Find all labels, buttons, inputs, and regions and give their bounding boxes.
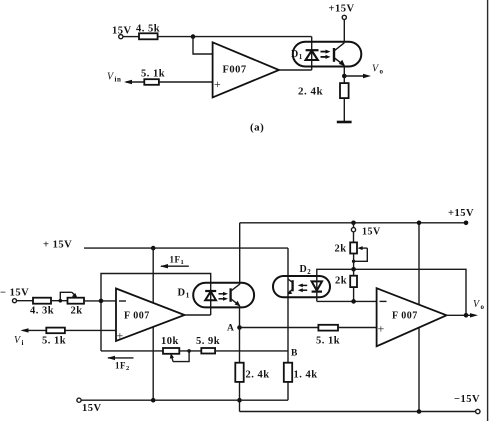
terminal 15V lower-left — [77, 398, 102, 414]
wire terminal to R4.5k — [123, 36, 139, 38]
svg-text:+: + — [117, 329, 124, 343]
junction node (a) inverting branch — [191, 34, 196, 39]
svg-text:−15V: −15V — [454, 394, 480, 405]
svg-text:1. 4k: 1. 4k — [294, 370, 318, 381]
resistor 5.1k input — [42, 328, 66, 347]
wire op-amp output to LED anode — [279, 69, 312, 71]
wire 2.4k down to lower rail corner — [239, 382, 241, 412]
svg-text:5. 1k: 5. 1k — [316, 336, 340, 347]
wire D2 LED anode up and right (feedback line) — [317, 269, 466, 315]
optocoupler D1 body — [193, 283, 254, 308]
svg-text:in: in — [115, 76, 122, 84]
svg-text:B: B — [291, 349, 298, 359]
wire top rail down to D1 collector — [239, 223, 241, 285]
wire R4.5k to LED cathode node — [158, 36, 312, 38]
phototransistor D1 — [231, 284, 241, 306]
node inverting input junction — [99, 299, 104, 304]
svg-text:2. 4k: 2. 4k — [246, 370, 270, 381]
svg-text:i: i — [22, 339, 24, 347]
output Vo arrow (b) — [470, 299, 485, 318]
terminal -15V input — [0, 288, 33, 303]
resistor 2k (lower) — [335, 269, 357, 303]
svg-text:F 007: F 007 — [124, 311, 150, 322]
feedback wire op-amp1 to D1 LED — [101, 274, 211, 352]
wire D2 LED cathode down and right to op-amp2 - input — [317, 300, 377, 302]
light arrows D2 (pointing left) — [298, 284, 307, 293]
output node (a) — [342, 74, 347, 79]
wire node A to op-amp2 + input — [240, 327, 319, 329]
wire 5.9k to node B — [215, 350, 288, 352]
svg-text:5. 9k: 5. 9k — [196, 336, 220, 347]
resistor 4.5k (a) — [136, 24, 160, 40]
svg-text:F 007: F 007 — [392, 311, 418, 322]
wire 5.1k to op-amp1 + input — [65, 329, 116, 331]
node op-amp1 V- on rail — [151, 398, 156, 403]
lower bottom rail to -15V — [240, 394, 481, 414]
wire left rail down to D2 collector — [287, 248, 289, 363]
svg-text:+: + — [378, 322, 385, 336]
op-amp1 supply line (hidden behind triangle) — [152, 248, 154, 400]
svg-text:o: o — [380, 68, 384, 76]
LED D1: bar + triangle — [205, 291, 216, 300]
resistor 5.1k (b right) — [316, 325, 340, 347]
light arrows D1 — [219, 292, 229, 301]
svg-text:2k: 2k — [335, 244, 347, 255]
optocoupler body (a) — [293, 42, 362, 67]
svg-text:2k: 2k — [335, 276, 347, 287]
terminal 15V input (a) — [112, 26, 132, 39]
svg-text:4. 5k: 4. 5k — [136, 24, 160, 35]
node op-amp2 V- on lower rail — [417, 409, 422, 414]
wire feedback node to 10k — [101, 350, 163, 352]
svg-text:o: o — [481, 303, 485, 311]
resistor 2.4k (b) — [235, 363, 269, 382]
resistor 1.4k — [284, 363, 318, 382]
resistor 5.9k — [196, 336, 220, 354]
svg-text:4. 3k: 4. 3k — [30, 306, 54, 317]
node 2.4k on upper bottom rail — [237, 398, 242, 403]
wire 5.1k to op-amp2 — [338, 327, 377, 329]
svg-text:+ 15V: + 15V — [43, 240, 72, 251]
wire 5.1k to op-amp + input — [159, 81, 213, 83]
wire node A down to 2.4k — [239, 328, 241, 363]
LED D2: triangle + bar (anode top) — [312, 281, 322, 291]
label IF2 current arrow — [107, 356, 134, 372]
svg-text:5. 1k: 5. 1k — [141, 69, 165, 80]
potentiometer 10k — [161, 336, 191, 362]
op-amp U1 F007 (a) — [213, 42, 279, 97]
svg-text:− 15V: − 15V — [0, 288, 29, 299]
wire 10k to 5.9k — [179, 350, 201, 352]
output Vo arrow (a) — [344, 64, 383, 79]
+15V left rail — [43, 240, 288, 251]
potentiometer 2k — [59, 292, 85, 316]
+15V terminal (a) — [329, 4, 355, 43]
potentiometer 2k (upper) — [335, 242, 368, 263]
node feedback on output — [464, 313, 469, 318]
output wire op-amp2 — [447, 314, 474, 316]
upper bottom rail — [81, 399, 288, 401]
svg-text:F007: F007 — [223, 65, 247, 76]
wire 2.4k to ground — [343, 98, 345, 122]
wire pot to op-amp1 inverting input — [84, 300, 116, 302]
wire 1.4k down to upper bottom rail — [287, 382, 289, 400]
terminal 15V (pot supply) — [351, 221, 381, 243]
svg-text:A: A — [227, 324, 234, 334]
optocoupler D2 body — [273, 276, 330, 297]
resistor 5.1k (a) — [141, 69, 165, 85]
phototransistor (a) — [334, 43, 345, 66]
svg-text:2. 4k: 2. 4k — [298, 86, 324, 98]
wire 4.3k to 2k pot — [51, 300, 68, 302]
wire pot down to feedback line — [353, 254, 355, 270]
input Vi arrow — [14, 328, 46, 347]
svg-text:2k: 2k — [71, 306, 83, 317]
LED feed verticals (a) — [311, 37, 313, 70]
wire D1 emitter down to node A — [239, 306, 241, 328]
op-amp2 F007 — [377, 288, 447, 346]
node pot/2k junction on feedback line — [351, 267, 356, 272]
op-amp1 F007 — [116, 289, 185, 343]
node: op-amp1 V+ junction — [151, 246, 156, 251]
svg-text:10k: 10k — [161, 336, 179, 347]
op-amp2 supply line (hidden behind triangle) — [418, 223, 420, 412]
emitter wire down (a) — [343, 66, 345, 84]
ground (a) — [337, 121, 352, 124]
resistor 2.4k (a) — [298, 83, 349, 98]
resistor 4.3k — [30, 298, 54, 317]
svg-text:(a): (a) — [250, 122, 264, 134]
label IF1 current arrow — [160, 255, 189, 269]
scan edge line right — [487, 0, 489, 421]
LED D1 (a): cathode bar + triangle — [306, 50, 319, 60]
+15V top rail — [240, 208, 474, 225]
wire branch to inverting input — [193, 37, 213, 54]
wire op-amp1 output — [185, 314, 211, 316]
svg-text:5. 1k: 5. 1k — [42, 336, 66, 347]
svg-text:+15V: +15V — [448, 208, 474, 219]
svg-text:+: + — [214, 77, 221, 91]
svg-text:+15V: +15V — [329, 4, 355, 15]
phototransistor D2 (mirrored) — [287, 279, 292, 295]
svg-text:15V: 15V — [362, 227, 381, 238]
input Vin arrow — [107, 72, 144, 85]
svg-text:15V: 15V — [82, 403, 102, 414]
light arrows (a) — [321, 50, 331, 59]
node A — [227, 324, 242, 334]
svg-text:15V: 15V — [112, 26, 132, 37]
node op-amp2 V+ on top rail — [417, 221, 422, 226]
